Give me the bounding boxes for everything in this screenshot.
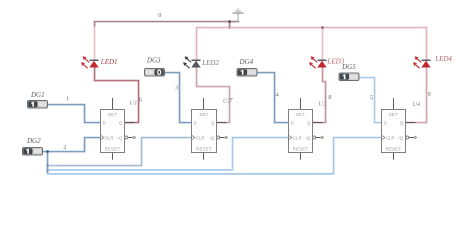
ground GND [233, 9, 244, 21]
svg-text:9: 9 [428, 91, 431, 98]
svg-text:LED1: LED1 [100, 58, 118, 66]
svg-text:LED4: LED4 [434, 55, 452, 63]
svg-text:CLR: CLR [196, 136, 204, 141]
switch DG3 [145, 56, 165, 76]
svg-text:DG5: DG5 [341, 63, 356, 71]
wire net 2 DG2 to U1 CLK [43, 138, 101, 152]
svg-text:~Q: ~Q [209, 136, 215, 141]
svg-text:1: 1 [66, 96, 69, 103]
svg-text:DG3: DG3 [146, 56, 161, 64]
switch DG1 [28, 91, 48, 108]
svg-text:U2: U2 [223, 98, 232, 105]
LED LED4 [413, 55, 452, 68]
junction dot [228, 26, 231, 29]
wire net 0 drop to LED1 [94, 27, 96, 61]
svg-text:0: 0 [158, 12, 161, 19]
junction dot [46, 150, 49, 153]
wire net 0 bridge [229, 22, 231, 28]
junction dot [46, 169, 49, 172]
wire net 7 LED2 to U2 Q [197, 68, 230, 123]
svg-text:RESET: RESET [386, 146, 402, 151]
wire net 0 tap to LED3 [322, 28, 324, 61]
svg-text:LED2: LED2 [201, 59, 219, 67]
svg-text:2: 2 [63, 144, 66, 151]
junction dot [46, 164, 49, 167]
svg-text:SET: SET [108, 112, 117, 117]
svg-text:~Q: ~Q [117, 136, 123, 141]
wire net 1 DG1 to U1 D [49, 105, 101, 123]
switch DG2 [23, 137, 43, 155]
svg-text:5: 5 [370, 95, 373, 102]
svg-text:RESET: RESET [196, 146, 212, 151]
junction dot [321, 26, 324, 29]
svg-text:CLR: CLR [293, 136, 301, 141]
wire net 2 bus C to U4 CLK [48, 138, 382, 174]
svg-text:3: 3 [175, 85, 178, 92]
svg-text:U4: U4 [412, 101, 421, 108]
svg-text:8: 8 [328, 94, 331, 101]
flip-flop U2 [192, 98, 232, 160]
LED LED2 [183, 56, 219, 68]
wire net 2 bus B to U3 CLK [48, 138, 289, 170]
svg-text:DG2: DG2 [26, 137, 41, 145]
svg-text:D: D [291, 120, 294, 125]
wire net 3 DG3 to U2 D [165, 73, 192, 123]
svg-text:6: 6 [139, 96, 142, 103]
svg-text:CLR: CLR [105, 136, 113, 141]
wire net 4 DG4 to U3 D [258, 73, 289, 123]
LED LED1 [81, 56, 118, 68]
flip-flop U4 [382, 98, 421, 160]
svg-text:U1: U1 [129, 99, 137, 106]
svg-text:DG4: DG4 [239, 58, 254, 66]
svg-text:DG1: DG1 [30, 91, 45, 99]
svg-text:RESET: RESET [293, 146, 309, 151]
svg-text:RESET: RESET [105, 146, 121, 151]
wire net 5 DG5 to U4 D [360, 78, 382, 123]
switch DG5 [339, 63, 359, 81]
svg-text:CLR: CLR [386, 136, 394, 141]
svg-text:D: D [384, 120, 387, 125]
wire net 0 lower rail [197, 28, 427, 61]
svg-text:SET: SET [389, 112, 398, 117]
wire net 2 bus stem [47, 152, 49, 174]
flip-flop U3 [289, 98, 327, 160]
svg-text:SET: SET [199, 112, 208, 117]
wire net 8 LED3 to U3 Q [314, 68, 326, 123]
svg-text:D: D [194, 120, 197, 125]
wire net 0 top rail [95, 22, 239, 27]
junction dot [228, 20, 231, 23]
flip-flop U1 [101, 98, 138, 160]
svg-text:~Q: ~Q [398, 136, 404, 141]
LED LED3 [309, 56, 345, 68]
wire net 6 LED1 to U1 Q [95, 68, 139, 123]
switch DG4 [237, 58, 257, 76]
svg-text:D: D [103, 120, 106, 125]
svg-text:U3: U3 [318, 100, 327, 107]
wire net 9 LED4 to U4 Q [407, 68, 427, 123]
wire net 2 bus A to U2 CLK [48, 138, 192, 166]
svg-text:SET: SET [296, 112, 305, 117]
svg-text:~Q: ~Q [305, 136, 311, 141]
